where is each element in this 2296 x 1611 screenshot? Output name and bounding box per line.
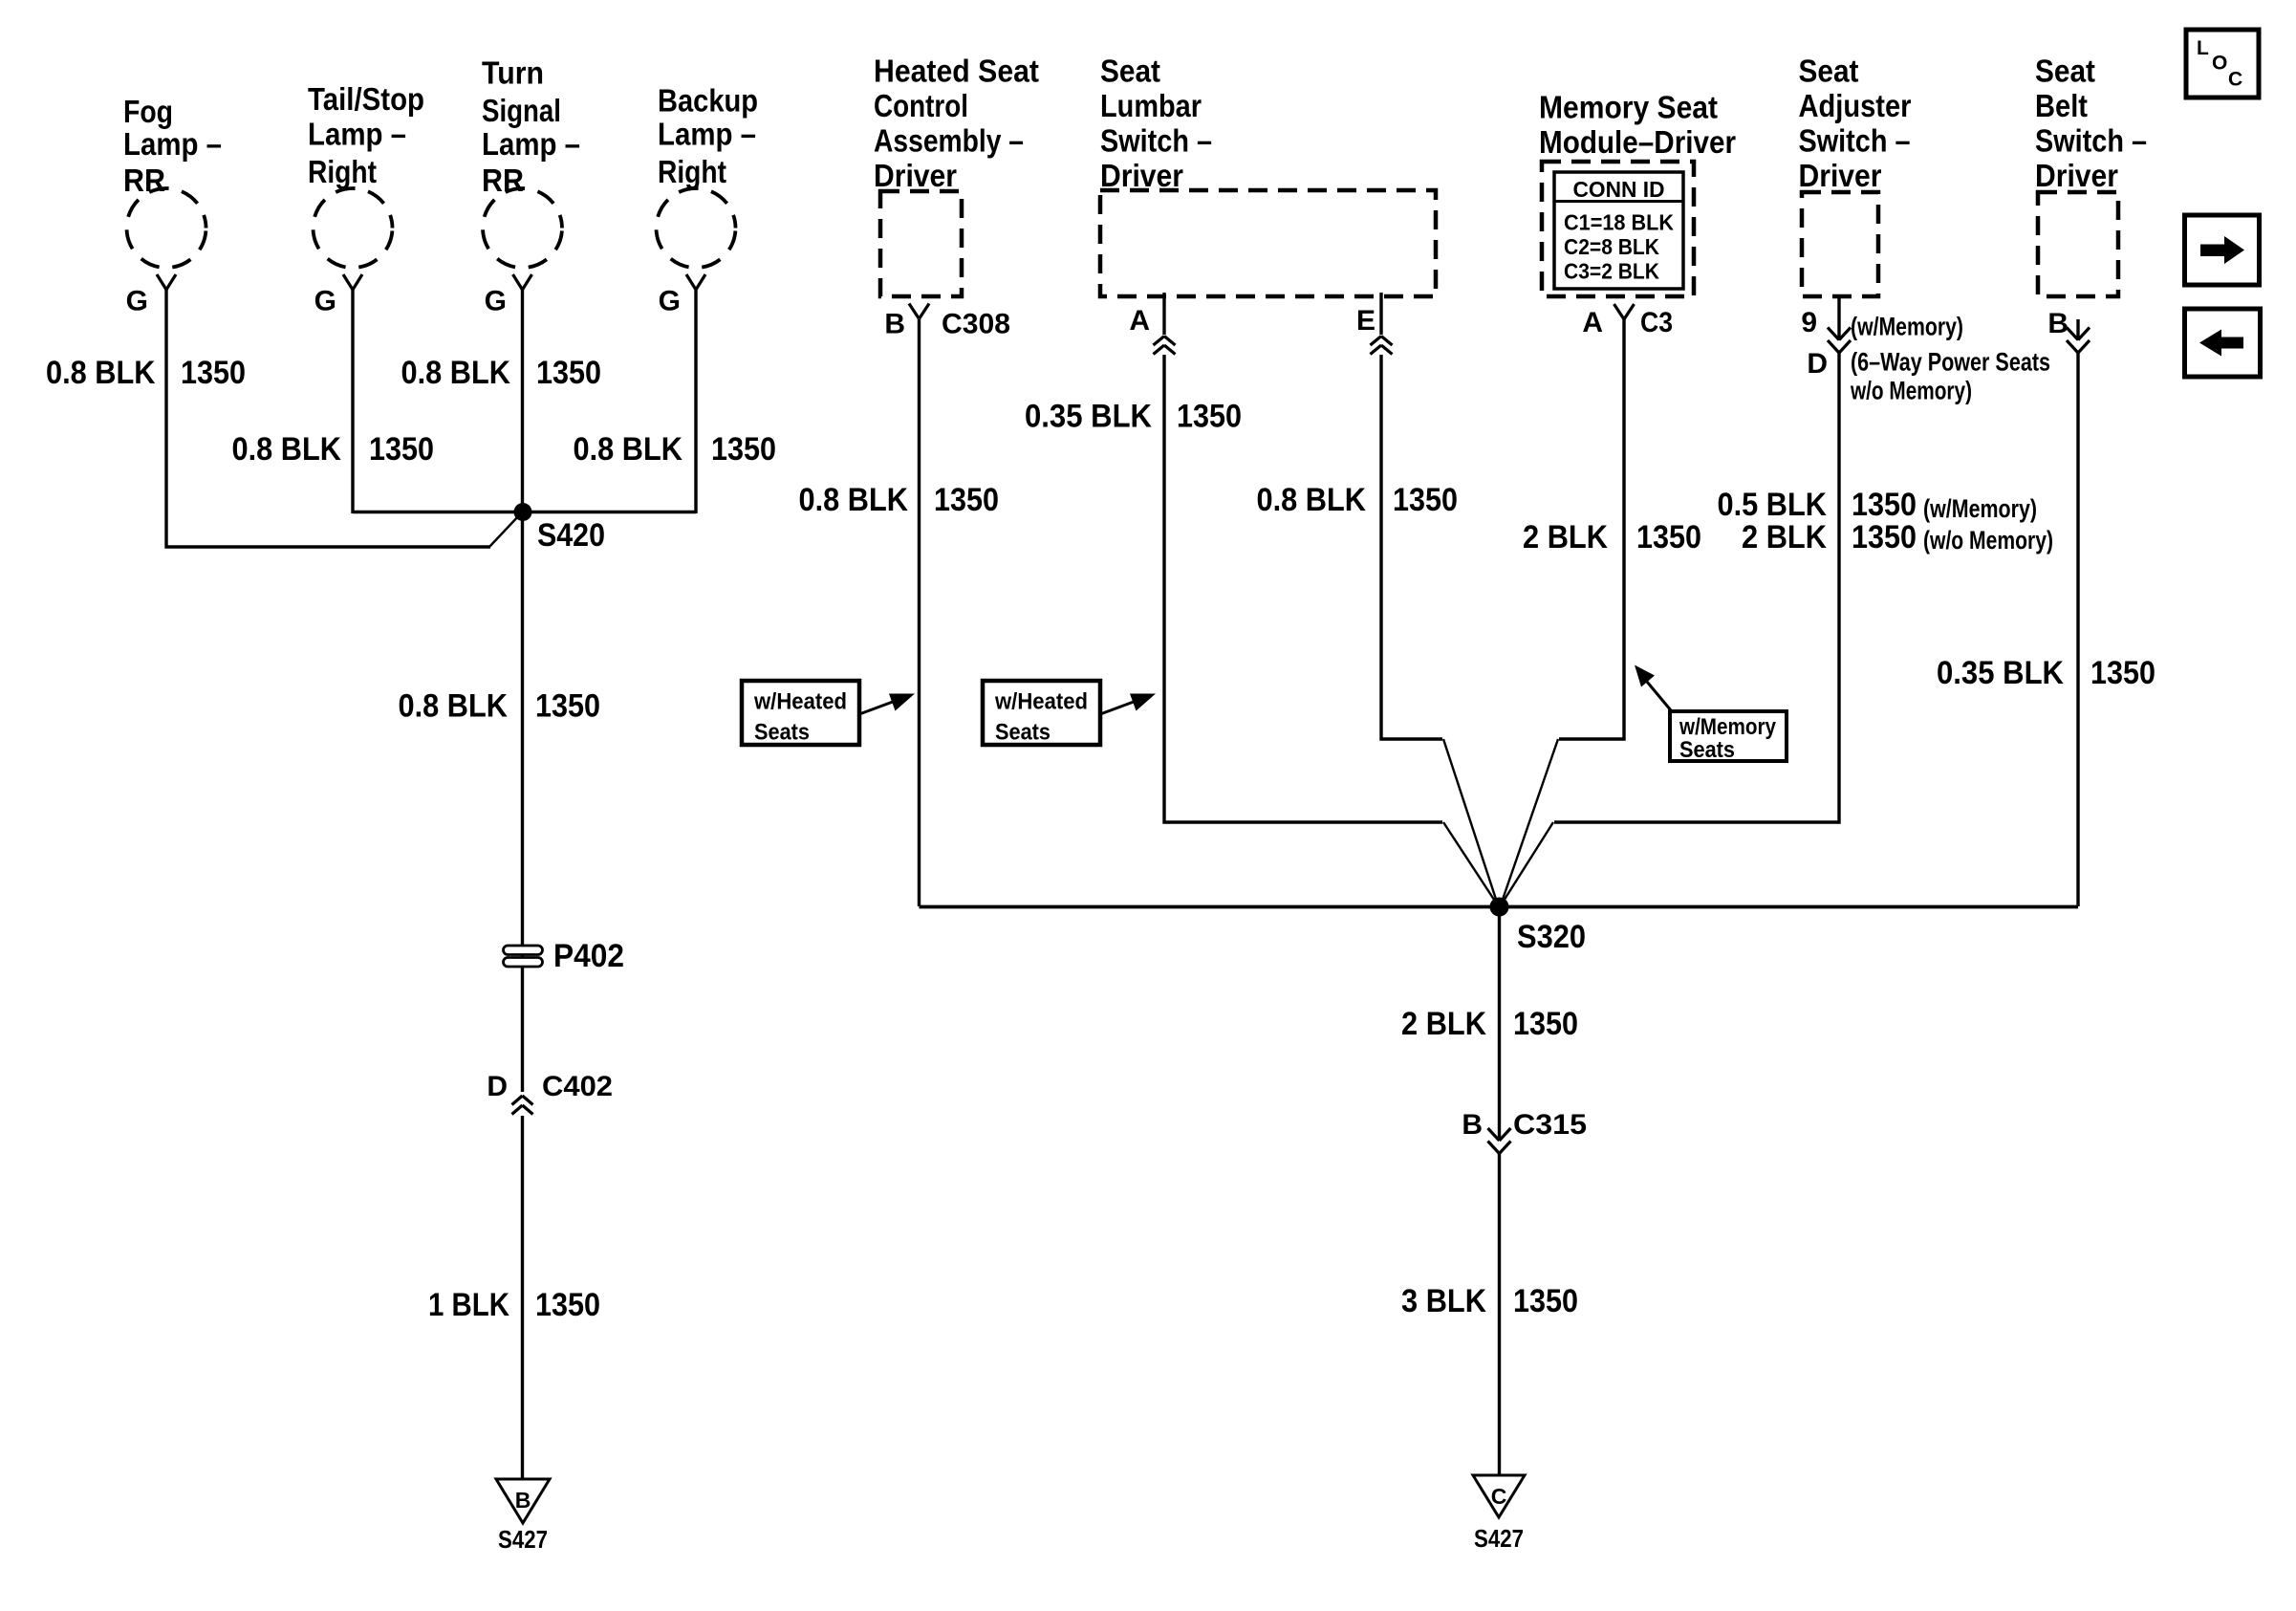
svg-text:Seat: Seat [1799, 54, 1859, 89]
svg-text:S427: S427 [498, 1525, 548, 1554]
svg-text:S420: S420 [537, 517, 605, 554]
svg-text:w/Heated: w/Heated [753, 689, 847, 715]
svg-text:1350: 1350 [934, 482, 999, 518]
svg-text:0.8 BLK: 0.8 BLK [574, 431, 683, 468]
svg-text:Lamp –: Lamp – [308, 117, 406, 152]
svg-text:1 BLK: 1 BLK [428, 1287, 509, 1323]
svg-text:RR: RR [482, 163, 524, 198]
svg-text:G: G [485, 286, 507, 317]
svg-text:0.8 BLK: 0.8 BLK [799, 482, 909, 518]
svg-text:Driver: Driver [2035, 158, 2118, 193]
svg-text:0.8 BLK: 0.8 BLK [232, 431, 342, 468]
svg-text:S427: S427 [1474, 1524, 1524, 1553]
svg-text:1350: 1350 [181, 355, 246, 391]
svg-text:Seats: Seats [995, 720, 1051, 746]
svg-text:0.8 BLK: 0.8 BLK [399, 688, 509, 725]
svg-text:Backup: Backup [658, 83, 758, 119]
svg-text:L: L [2197, 37, 2209, 59]
svg-text:Switch –: Switch – [2035, 123, 2147, 159]
svg-text:1350: 1350 [1513, 1283, 1578, 1319]
svg-text:Seats: Seats [1679, 737, 1735, 763]
svg-text:1350: 1350 [2090, 655, 2155, 691]
svg-text:(6–Way Power Seats: (6–Way Power Seats [1851, 348, 2050, 377]
svg-text:Switch –: Switch – [1100, 123, 1212, 159]
svg-text:S320: S320 [1517, 919, 1586, 955]
svg-text:0.8 BLK: 0.8 BLK [401, 355, 511, 391]
svg-text:Driver: Driver [874, 158, 957, 193]
svg-text:0.8 BLK: 0.8 BLK [46, 355, 156, 391]
svg-text:Module–Driver: Module–Driver [1539, 124, 1736, 160]
svg-text:0.35 BLK: 0.35 BLK [1025, 399, 1152, 435]
svg-text:1350: 1350 [1393, 482, 1458, 518]
svg-text:O: O [2212, 53, 2227, 75]
svg-text:B: B [2047, 308, 2069, 339]
svg-text:w/o Memory): w/o Memory) [1850, 376, 1972, 404]
svg-text:2 BLK: 2 BLK [1523, 519, 1608, 555]
svg-text:C: C [2228, 69, 2242, 91]
svg-text:Signal: Signal [482, 93, 561, 128]
svg-text:G: G [126, 286, 148, 317]
svg-text:1350: 1350 [1852, 487, 1917, 523]
svg-text:Control: Control [874, 88, 968, 123]
svg-text:9: 9 [1801, 307, 1817, 338]
svg-text:Turn: Turn [482, 55, 544, 91]
svg-text:D: D [1807, 348, 1828, 380]
svg-text:(w/o Memory): (w/o Memory) [1923, 526, 2053, 555]
svg-text:B: B [515, 1488, 531, 1513]
svg-text:G: G [314, 286, 336, 317]
svg-text:A: A [1582, 307, 1603, 338]
svg-text:Lamp –: Lamp – [658, 117, 756, 152]
svg-text:Right: Right [308, 154, 377, 189]
svg-text:0.8 BLK: 0.8 BLK [1257, 482, 1367, 518]
svg-text:Seat: Seat [1100, 54, 1160, 89]
svg-text:Lumbar: Lumbar [1100, 88, 1202, 123]
svg-text:1350: 1350 [535, 1287, 600, 1323]
svg-text:Lamp –: Lamp – [123, 126, 222, 162]
svg-text:1350: 1350 [1852, 519, 1917, 555]
svg-text:Belt: Belt [2035, 88, 2088, 123]
svg-text:1350: 1350 [536, 355, 601, 391]
svg-text:B: B [884, 308, 905, 339]
svg-text:Driver: Driver [1799, 158, 1882, 193]
svg-text:1350: 1350 [1636, 519, 1701, 555]
svg-text:C315: C315 [1513, 1109, 1587, 1141]
svg-text:E: E [1356, 305, 1375, 337]
svg-text:(w/Memory): (w/Memory) [1923, 494, 2037, 523]
svg-text:Memory Seat: Memory Seat [1539, 89, 1718, 124]
svg-text:P402: P402 [553, 938, 624, 974]
svg-text:Driver: Driver [1100, 158, 1183, 193]
svg-text:2 BLK: 2 BLK [1401, 1006, 1486, 1042]
svg-text:3 BLK: 3 BLK [1401, 1283, 1486, 1319]
svg-text:Right: Right [658, 154, 726, 189]
svg-text:C3: C3 [1640, 307, 1673, 338]
svg-text:Switch –: Switch – [1799, 123, 1911, 159]
svg-text:C2=8 BLK: C2=8 BLK [1564, 234, 1659, 259]
svg-text:Heated Seat: Heated Seat [874, 54, 1039, 89]
svg-text:1350: 1350 [1177, 399, 1242, 435]
svg-text:G: G [659, 286, 681, 317]
svg-text:C308: C308 [942, 308, 1010, 339]
svg-text:C402: C402 [542, 1071, 613, 1102]
svg-text:0.5 BLK: 0.5 BLK [1718, 487, 1828, 523]
svg-text:Lamp –: Lamp – [482, 126, 580, 162]
svg-text:Assembly –: Assembly – [874, 123, 1024, 159]
svg-text:D: D [487, 1071, 508, 1102]
svg-text:Adjuster: Adjuster [1799, 88, 1912, 123]
svg-text:Fog: Fog [123, 94, 173, 129]
svg-text:0.35 BLK: 0.35 BLK [1937, 655, 2064, 691]
svg-text:1350: 1350 [369, 431, 434, 468]
svg-text:1350: 1350 [535, 688, 600, 725]
svg-text:C: C [1491, 1484, 1507, 1509]
svg-text:1350: 1350 [1513, 1006, 1578, 1042]
svg-text:C3=2 BLK: C3=2 BLK [1564, 259, 1659, 284]
svg-text:A: A [1129, 305, 1150, 337]
svg-text:Seat: Seat [2035, 54, 2095, 89]
svg-text:Seats: Seats [754, 720, 810, 746]
svg-text:C1=18 BLK: C1=18 BLK [1564, 210, 1674, 235]
svg-text:w/Heated: w/Heated [994, 689, 1088, 715]
svg-text:(w/Memory): (w/Memory) [1851, 313, 1963, 341]
svg-text:CONN ID: CONN ID [1573, 177, 1665, 202]
svg-text:2 BLK: 2 BLK [1742, 519, 1827, 555]
svg-text:1350: 1350 [711, 431, 776, 468]
svg-text:RR: RR [123, 163, 165, 198]
svg-text:Tail/Stop: Tail/Stop [308, 81, 424, 117]
svg-text:B: B [1462, 1109, 1483, 1141]
svg-text:w/Memory: w/Memory [1679, 714, 1776, 740]
